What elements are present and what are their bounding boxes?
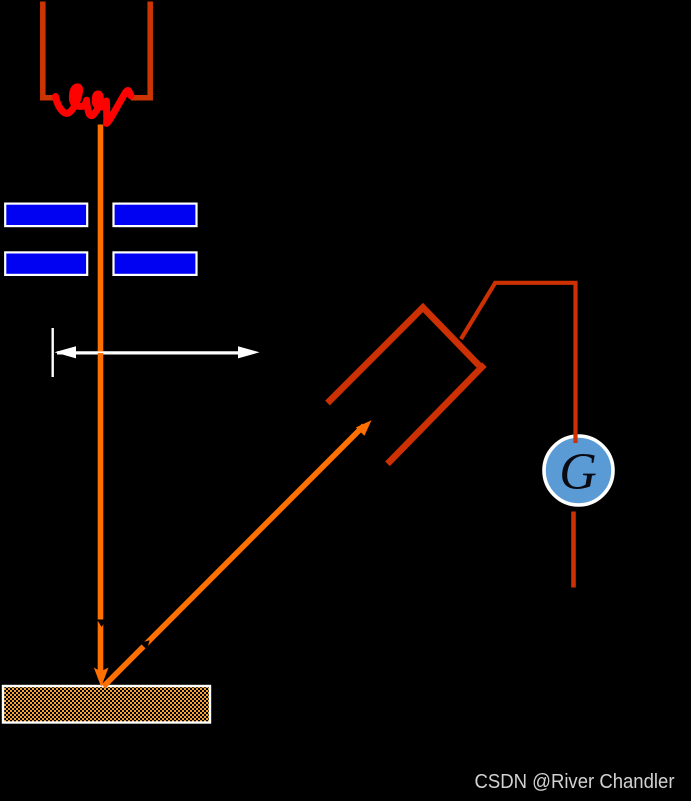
electron gun left wall <box>43 2 55 98</box>
scattered beam (diagonal) <box>104 426 365 687</box>
electron gun right wall <box>131 2 151 98</box>
scattered beam arrowhead <box>356 420 372 436</box>
electron beam (vertical) <box>98 125 104 673</box>
plate top-left <box>5 204 87 227</box>
plate top-right <box>114 204 197 227</box>
filament coil <box>56 87 132 124</box>
beam arrowhead <box>94 668 109 688</box>
scattered beam direction mark (black) <box>140 640 150 649</box>
measurement double arrow <box>57 351 242 354</box>
galvanometer G <box>544 436 613 505</box>
plate bottom-left <box>5 252 87 275</box>
plate bottom-right <box>114 252 197 275</box>
crystal target <box>3 686 210 723</box>
white line crossing over beam <box>96 351 105 353</box>
svg-text:CSDN @River Chandler: CSDN @River Chandler <box>475 770 675 793</box>
beam direction mark (black) <box>97 620 106 628</box>
detector (open tube, rotated) <box>328 308 480 404</box>
detector lower-right side <box>388 365 485 464</box>
svg-text:G: G <box>559 444 597 501</box>
wire below galvanometer <box>571 512 576 588</box>
measurement tick <box>52 328 54 377</box>
wire from detector to galvanometer <box>461 283 576 443</box>
